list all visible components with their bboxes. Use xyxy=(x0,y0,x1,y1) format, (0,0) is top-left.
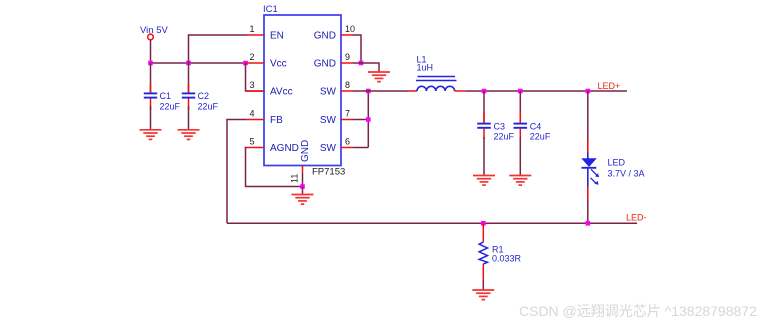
svg-text:Vin 5V: Vin 5V xyxy=(140,25,168,36)
wire AGND to pin11 node xyxy=(246,148,303,187)
svg-text:AGND: AGND xyxy=(270,143,299,154)
svg-text:C3: C3 xyxy=(494,122,506,132)
svg-text:3.7V / 3A: 3.7V / 3A xyxy=(608,169,645,179)
svg-text:Vcc: Vcc xyxy=(270,59,287,70)
svg-text:9: 9 xyxy=(345,52,350,62)
wire LED+ down to LED anode xyxy=(587,91,589,153)
wire Vin down to Vcc rail xyxy=(150,40,152,63)
pin 8 SW xyxy=(320,80,353,98)
svg-text:C1: C1 xyxy=(160,91,172,101)
svg-text:2: 2 xyxy=(249,52,254,62)
wire LED cathode down to LED- xyxy=(587,187,589,224)
node LED- junction xyxy=(586,221,591,226)
wire SW output to L1 xyxy=(353,90,409,92)
wire pin7 to bus xyxy=(353,119,368,121)
ground below C2 xyxy=(178,130,200,140)
IC U1 body FP7153 xyxy=(263,4,345,178)
svg-text:GND: GND xyxy=(314,31,336,42)
ground below pin 11 xyxy=(292,195,314,205)
svg-text:3: 3 xyxy=(249,80,254,90)
svg-text:1uH: 1uH xyxy=(417,63,434,73)
pin 7 SW xyxy=(320,109,353,127)
pin 3 AVcc xyxy=(246,80,293,98)
pin 10 GND xyxy=(314,24,355,42)
svg-text:11: 11 xyxy=(290,174,300,183)
power terminal Vin 5V xyxy=(140,25,168,40)
node C4 junction xyxy=(518,89,523,94)
resistor R1 0.033R xyxy=(479,223,521,290)
wire pin10 to pin9 net xyxy=(353,35,361,63)
wire pin11 junction to ground xyxy=(302,187,304,195)
pin 2 Vcc xyxy=(246,52,287,70)
svg-text:IC1: IC1 xyxy=(263,4,278,15)
svg-text:22uF: 22uF xyxy=(198,102,219,112)
pin 9 GND xyxy=(314,52,353,70)
svg-text:1: 1 xyxy=(249,24,254,34)
node SW bus pin7 junction xyxy=(366,117,371,122)
svg-text:SW: SW xyxy=(320,115,337,126)
wire LED- bottom rail xyxy=(227,222,637,224)
ground below C4 xyxy=(509,176,531,186)
wire FB feedback loop xyxy=(227,120,246,224)
svg-text:SW: SW xyxy=(320,143,337,154)
svg-text:6: 6 xyxy=(345,137,350,147)
ground below R1 xyxy=(472,290,494,300)
svg-text:22uF: 22uF xyxy=(160,102,181,112)
svg-text:0.033R: 0.033R xyxy=(492,253,522,263)
ground below C3 xyxy=(473,176,495,186)
svg-text:4: 4 xyxy=(249,109,254,119)
svg-text:7: 7 xyxy=(345,109,350,119)
node SW bus top junction xyxy=(366,89,371,94)
node EN/C2 rail junction xyxy=(186,61,191,66)
svg-text:C2: C2 xyxy=(198,91,210,101)
svg-text:EN: EN xyxy=(270,31,284,42)
node Vin/C1 rail junction xyxy=(148,61,153,66)
svg-text:LED-: LED- xyxy=(626,213,647,223)
svg-text:FB: FB xyxy=(270,115,283,126)
svg-text:GND: GND xyxy=(300,140,311,162)
svg-text:5: 5 xyxy=(249,137,254,147)
node pin10/pin9 junction xyxy=(359,61,364,66)
svg-text:GND: GND xyxy=(314,59,336,70)
node Vcc pin / AVcc branch junction xyxy=(243,61,248,66)
pin 5 AGND xyxy=(246,137,299,155)
svg-text:FP7153: FP7153 xyxy=(312,167,345,178)
node AGND/pin11 junction xyxy=(300,184,305,189)
ground for GND pins xyxy=(368,72,390,82)
node LED+ junction xyxy=(586,89,591,94)
svg-text:SW: SW xyxy=(320,87,337,98)
svg-text:CSDN @远翔调光芯片 ^13828798872: CSDN @远翔调光芯片 ^13828798872 xyxy=(519,303,757,319)
inductor L1 1uH xyxy=(409,55,467,92)
ground below C1 xyxy=(140,130,162,140)
wire SW bus vertical xyxy=(367,91,369,148)
pin 11 GND bottom stub xyxy=(290,166,303,187)
pin 6 SW xyxy=(320,137,353,155)
LED D1 3.7V / 3A xyxy=(581,153,644,187)
svg-text:10: 10 xyxy=(345,24,355,34)
capacitor C2 xyxy=(182,63,219,130)
svg-text:LED: LED xyxy=(608,158,626,168)
wire EN branch xyxy=(189,35,247,63)
svg-text:22uF: 22uF xyxy=(530,132,551,142)
wire Vcc rail xyxy=(151,62,246,64)
svg-text:22uF: 22uF xyxy=(494,132,515,142)
node R1 junction xyxy=(481,221,486,226)
svg-text:C4: C4 xyxy=(530,122,542,132)
capacitor C3 xyxy=(477,91,514,176)
wire pin9 to ground xyxy=(353,63,379,72)
wire pin6 to bus xyxy=(353,147,368,149)
capacitor C1 xyxy=(144,63,181,130)
svg-text:LED+: LED+ xyxy=(598,81,621,91)
node C3 junction xyxy=(482,89,487,94)
pin 4 FB xyxy=(246,109,283,127)
wire AVcc branch xyxy=(246,63,265,91)
wire L1 to LED+ xyxy=(466,90,627,92)
svg-text:8: 8 xyxy=(345,80,350,90)
svg-text:AVcc: AVcc xyxy=(270,87,293,98)
pin 1 EN xyxy=(246,24,284,42)
capacitor C4 xyxy=(514,91,551,176)
